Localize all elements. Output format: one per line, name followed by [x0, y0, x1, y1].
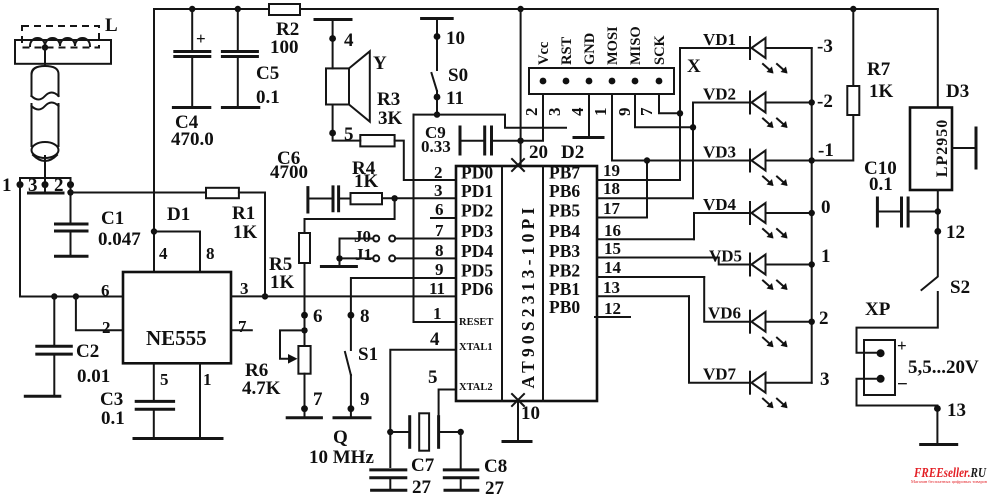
svg-text:3: 3	[820, 369, 830, 390]
svg-text:5: 5	[160, 370, 169, 389]
node 12	[934, 228, 941, 235]
svg-text:Магазин бесплатных цифровых то: Магазин бесплатных цифровых товаров	[911, 479, 987, 484]
svg-text:-2: -2	[817, 91, 833, 112]
svg-text:VD1: VD1	[703, 30, 736, 49]
ground C4	[173, 106, 209, 109]
wire VD7 feeder	[689, 296, 750, 382]
wire link to NE555 pin 2	[76, 297, 123, 331]
svg-text:S2: S2	[950, 277, 970, 298]
svg-text:11: 11	[429, 279, 445, 298]
svg-text:PD6: PD6	[461, 279, 493, 299]
capacitor C1	[56, 224, 88, 231]
node terminal2-R1 wire	[67, 189, 73, 195]
node S0-RST junction	[434, 111, 440, 117]
svg-text:Vcc: Vcc	[536, 41, 552, 65]
wire VD5 feeder	[719, 258, 750, 265]
svg-text:16: 16	[604, 221, 621, 240]
svg-text:NE555: NE555	[146, 326, 207, 350]
wire R4 node down to R5	[305, 198, 395, 233]
svg-text:10: 10	[521, 403, 540, 424]
svg-text:0.33: 0.33	[421, 137, 451, 156]
svg-text:PD5: PD5	[461, 261, 493, 281]
svg-text:S1: S1	[358, 344, 378, 365]
svg-text:−: −	[897, 374, 908, 395]
svg-text:J0: J0	[354, 227, 371, 246]
node 5	[329, 130, 336, 137]
node pin6-pin2 link	[73, 293, 79, 299]
capacitor C4	[191, 9, 193, 50]
wire speaker bottom	[333, 105, 361, 141]
LED VD5	[709, 247, 812, 291]
inductor L former box	[15, 40, 111, 64]
svg-text:5: 5	[344, 124, 354, 145]
wire NE555 pin 7 stub	[231, 329, 252, 331]
svg-text:1: 1	[433, 304, 442, 323]
wire PB1 pin 13	[597, 295, 689, 297]
resistor R2	[269, 4, 300, 15]
resistor R5	[299, 233, 310, 263]
pin 20 mark	[512, 159, 524, 171]
ground header	[574, 136, 603, 139]
LED VD7	[703, 365, 812, 409]
svg-text:VD6: VD6	[708, 304, 741, 323]
wire MISO to VD2 net	[635, 94, 693, 127]
node terminal 1	[17, 181, 24, 188]
svg-text:D2: D2	[561, 142, 584, 163]
capacitor C2	[53, 297, 55, 346]
wire terminal 2 to R1	[71, 192, 207, 194]
wire S2 to XP plus	[857, 292, 938, 353]
svg-text:4.7K: 4.7K	[242, 378, 281, 399]
svg-text:XP: XP	[865, 299, 891, 320]
svg-text:C7: C7	[411, 455, 435, 476]
svg-text:3: 3	[434, 181, 443, 200]
ground S1	[334, 416, 370, 419]
svg-text:4: 4	[159, 244, 168, 263]
svg-text:SCK: SCK	[652, 34, 668, 65]
capacitor C5	[237, 9, 239, 50]
svg-text:0: 0	[821, 197, 831, 218]
node 6	[301, 312, 308, 319]
svg-text:1K: 1K	[354, 171, 379, 192]
wire MCU pin 20 Vcc	[520, 9, 522, 166]
svg-text:4700: 4700	[270, 162, 308, 183]
node SCK-VD1	[677, 110, 683, 116]
terminal bar node 10	[422, 17, 453, 20]
capacitor C3	[136, 401, 173, 409]
svg-text:R1: R1	[232, 203, 255, 224]
terminal bar node 4	[315, 18, 351, 21]
wire R6 bottom	[304, 374, 306, 417]
svg-text:1K: 1K	[869, 81, 894, 102]
wire VD1 feeder	[680, 48, 750, 180]
ground pin 10	[503, 440, 531, 443]
wire S0 top	[436, 20, 438, 70]
svg-text:0.01: 0.01	[77, 366, 110, 387]
resistor R7	[852, 9, 854, 86]
svg-text:R3: R3	[377, 89, 400, 110]
wire VD3 feeder	[646, 161, 648, 218]
svg-text:10 MHz: 10 MHz	[309, 447, 374, 468]
svg-text:9: 9	[360, 389, 370, 410]
svg-text:3: 3	[240, 279, 249, 298]
svg-text:J1: J1	[355, 245, 372, 264]
ground C2	[25, 395, 60, 398]
svg-text:R7: R7	[867, 59, 891, 80]
ground C5	[222, 106, 258, 109]
node 13	[934, 405, 941, 412]
node crystal left	[387, 429, 393, 435]
svg-text:3K: 3K	[378, 108, 403, 129]
svg-text:L: L	[105, 15, 118, 36]
node J1 common	[336, 255, 342, 261]
svg-text:D1: D1	[167, 204, 190, 225]
svg-text:3: 3	[545, 108, 564, 117]
wire PB5 pin 17	[597, 217, 647, 219]
svg-text:1: 1	[591, 108, 610, 117]
ground C1	[56, 255, 88, 258]
inductor L dashed shield box	[22, 26, 99, 48]
svg-text:C8: C8	[484, 456, 507, 477]
speaker Y	[326, 68, 349, 104]
wire reset net to RESET pin	[414, 115, 457, 322]
pin 10 mark	[512, 394, 524, 406]
wire XTAL1	[390, 350, 456, 467]
svg-text:5: 5	[428, 367, 438, 388]
capacitor C8	[460, 432, 462, 469]
ground jumpers	[321, 265, 356, 268]
svg-text:9: 9	[615, 108, 634, 117]
node R6 wiper tie	[301, 327, 307, 333]
wire Vcc header pin to Vcc	[521, 94, 543, 141]
svg-text:LP2950: LP2950	[934, 119, 951, 177]
node rail-C4	[189, 6, 195, 12]
LED VD1	[703, 30, 812, 74]
wire PB3 pin 15	[597, 257, 719, 259]
svg-text:12: 12	[604, 299, 621, 318]
wire PB6 pin 18	[597, 197, 693, 199]
ground tab D3	[952, 147, 976, 149]
svg-text:0.047: 0.047	[98, 229, 141, 250]
svg-text:AT90S2313-10PI: AT90S2313-10PI	[518, 204, 538, 389]
svg-text:19: 19	[603, 161, 620, 180]
svg-text:PB1: PB1	[549, 279, 580, 299]
node R4-R5	[391, 195, 397, 201]
svg-text:PD2: PD2	[461, 201, 493, 221]
svg-text:RESET: RESET	[459, 317, 493, 328]
svg-text:PD4: PD4	[461, 241, 493, 261]
wire terminal bracket	[20, 178, 71, 185]
wire GND header	[588, 94, 590, 136]
wire PB4 pin 16	[597, 238, 694, 240]
wire coil tap down	[44, 48, 46, 67]
wire LED common rail	[811, 48, 813, 383]
svg-text:18: 18	[603, 179, 620, 198]
ground C8	[445, 489, 478, 492]
svg-text:VD5: VD5	[709, 247, 742, 266]
svg-text:VD7: VD7	[703, 365, 737, 384]
svg-text:15: 15	[604, 239, 621, 258]
svg-text:+: +	[897, 336, 907, 355]
svg-text:1K: 1K	[233, 222, 258, 243]
svg-text:-3: -3	[817, 36, 833, 57]
wire SCK to VD1 net	[659, 94, 680, 113]
wire XTAL2	[439, 390, 456, 421]
svg-text:13: 13	[947, 400, 966, 421]
resistor R4	[351, 193, 383, 204]
node pin6-C2	[51, 293, 57, 299]
wire R6 wiper loop	[280, 330, 305, 358]
svg-text:+: +	[196, 29, 206, 48]
ground battery	[921, 443, 957, 446]
wire terminal 1 to NE555 pin 6	[20, 185, 123, 297]
ground R6	[287, 416, 321, 419]
svg-text:20: 20	[529, 142, 548, 163]
svg-text:2: 2	[434, 163, 443, 182]
ground C3 / pin5	[134, 437, 178, 440]
svg-text:13: 13	[603, 278, 620, 297]
LED VD4	[703, 195, 812, 239]
wire VD3 row	[612, 160, 750, 162]
svg-text:14: 14	[604, 258, 622, 277]
svg-text:1: 1	[2, 175, 12, 196]
wire cable centre conductor	[44, 156, 46, 185]
wire PB2 pin 14	[597, 276, 704, 278]
wire MCU pin 10 ground	[517, 401, 519, 440]
svg-text:Y: Y	[373, 53, 387, 74]
svg-text:8: 8	[435, 241, 444, 260]
svg-text:6: 6	[101, 281, 110, 300]
node 8	[348, 312, 355, 319]
svg-text:C5: C5	[256, 63, 279, 84]
wire XP minus to node 13	[857, 379, 938, 443]
wire R5 to R6	[304, 263, 306, 346]
svg-text:10: 10	[446, 28, 465, 49]
svg-text:C3: C3	[100, 389, 123, 410]
wire Vcc drop to NE555 pins 4,8	[153, 9, 155, 272]
wire S1 bottom	[350, 375, 352, 417]
node Vcc-C9	[517, 138, 523, 144]
node rail VD2	[809, 99, 815, 105]
node rail VD4	[809, 210, 815, 216]
svg-text:XTAL1: XTAL1	[459, 342, 493, 353]
node 7	[301, 405, 308, 412]
svg-text:100: 100	[270, 37, 299, 58]
wire NE555 pin 3 to PD6	[231, 295, 456, 297]
svg-text:0.1: 0.1	[101, 408, 125, 429]
wire terminal 2 down	[70, 185, 72, 223]
svg-text:MISO: MISO	[628, 26, 644, 65]
node rail-R7	[850, 6, 856, 12]
potentiometer R6 arrow	[288, 354, 298, 364]
svg-text:17: 17	[603, 199, 621, 218]
wire VD4 feeder	[694, 213, 750, 239]
wire NE555 pin 5	[153, 363, 155, 400]
wire R7 to rail	[812, 115, 854, 161]
inductor L winding	[30, 38, 90, 46]
svg-text:RST: RST	[559, 36, 575, 65]
node VD3 tap	[644, 157, 650, 163]
node rail VD5	[809, 261, 815, 267]
svg-text:VD2: VD2	[703, 85, 736, 104]
svg-text:C1: C1	[101, 208, 124, 229]
svg-text:8: 8	[360, 306, 370, 327]
svg-text:2: 2	[102, 318, 111, 337]
svg-text:X: X	[687, 56, 701, 77]
wire VD6 feeder	[704, 277, 750, 322]
node terminal 3	[42, 181, 49, 188]
svg-text:8: 8	[206, 244, 215, 263]
svg-text:PB4: PB4	[549, 221, 580, 241]
svg-text:PB5: PB5	[549, 201, 580, 221]
wire R4 to PD1	[382, 197, 456, 199]
svg-text:D3: D3	[946, 81, 969, 102]
wire R3 to PD0	[395, 141, 456, 180]
wire PB7 pin 19	[597, 179, 680, 181]
svg-text:PB3: PB3	[549, 241, 580, 261]
wire S1 to PD5	[351, 278, 456, 350]
node MISO-VD2	[690, 124, 696, 130]
switch S0	[432, 73, 438, 91]
svg-text:2: 2	[819, 308, 829, 329]
wire top supply rail left segment	[154, 8, 269, 10]
node rail-C5	[235, 6, 241, 12]
wire NE555 pin 1	[199, 363, 201, 437]
ground C7	[372, 489, 406, 492]
wire top supply rail right segment	[300, 8, 938, 10]
node terminal 2	[67, 181, 74, 188]
wire S0 bottom	[436, 91, 438, 115]
wire R1 to NE555 pin 3 net	[239, 193, 265, 297]
header pins	[540, 78, 547, 85]
wire reset net S0 to RST header	[414, 115, 567, 128]
wire PB0 stub	[595, 316, 630, 318]
node rail VD6	[809, 319, 815, 325]
svg-text:7: 7	[435, 221, 444, 240]
svg-text:7: 7	[313, 389, 323, 410]
svg-text:VD4: VD4	[703, 195, 737, 214]
svg-text:6: 6	[435, 200, 444, 219]
svg-text:PD0: PD0	[461, 163, 493, 183]
svg-text:PD3: PD3	[461, 221, 493, 241]
wire VD2 feeder	[693, 103, 750, 199]
node rail-Vcc-MCU	[517, 6, 523, 12]
svg-text:GND: GND	[582, 33, 598, 65]
svg-text:1K: 1K	[270, 272, 295, 293]
svg-text:MOSI: MOSI	[605, 26, 621, 65]
svg-text:27: 27	[485, 478, 505, 499]
svg-text:S0: S0	[448, 65, 468, 86]
node rail VD3	[809, 157, 815, 163]
svg-text:4: 4	[430, 329, 440, 350]
ground pin 1	[180, 437, 222, 440]
svg-text:7: 7	[637, 107, 656, 116]
cable shielded lead-in	[32, 66, 59, 96]
svg-text:1: 1	[203, 370, 212, 389]
wire PD2 stub	[431, 217, 456, 219]
svg-text:5,5...20V: 5,5...20V	[908, 357, 979, 378]
wire branch to NE555 pin 8	[154, 232, 200, 273]
svg-text:27: 27	[412, 477, 432, 498]
capacitor C7	[371, 470, 406, 478]
svg-text:C2: C2	[76, 341, 99, 362]
node 11	[434, 94, 441, 101]
node 9	[348, 405, 355, 412]
ground shield bar	[44, 185, 46, 192]
node 10	[434, 33, 441, 40]
wire D3 output	[937, 190, 939, 276]
svg-text:PB7: PB7	[549, 163, 580, 183]
node Vcc-pin4-8 split	[151, 228, 157, 234]
svg-text:11: 11	[446, 88, 464, 109]
svg-text:-1: -1	[818, 140, 834, 161]
node R1-pin3	[262, 293, 268, 299]
svg-text:12: 12	[946, 222, 965, 243]
switch S2	[922, 277, 938, 290]
switch S1	[345, 352, 351, 375]
resistor R3	[360, 135, 394, 146]
LED VD6	[708, 304, 812, 348]
svg-text:470.0: 470.0	[171, 129, 214, 150]
svg-text:1: 1	[821, 246, 831, 267]
node 4	[329, 35, 336, 42]
resistor R1	[206, 188, 239, 198]
svg-text:VD3: VD3	[703, 143, 736, 162]
svg-text:0.1: 0.1	[256, 87, 280, 108]
svg-text:4: 4	[568, 107, 587, 116]
svg-text:2: 2	[522, 108, 541, 117]
wire MOSI to VD3 net	[611, 94, 613, 161]
crystal Q1 10MHz	[390, 431, 409, 433]
svg-text:Q: Q	[333, 427, 348, 448]
LED VD3	[703, 143, 812, 187]
node coil tap	[42, 44, 48, 50]
svg-text:XTAL2: XTAL2	[459, 382, 493, 393]
wire speaker top	[332, 21, 334, 68]
LED VD2	[703, 85, 812, 129]
svg-text:PB2: PB2	[549, 261, 580, 281]
svg-text:6: 6	[313, 306, 323, 327]
wire jumper common	[339, 239, 341, 266]
svg-text:4: 4	[344, 30, 354, 51]
svg-text:PD1: PD1	[461, 181, 493, 201]
svg-text:9: 9	[435, 260, 444, 279]
svg-text:0.1: 0.1	[869, 174, 893, 195]
svg-text:PB0: PB0	[549, 297, 580, 317]
node C10 tap	[935, 208, 941, 214]
svg-text:PB6: PB6	[549, 181, 580, 201]
svg-text:7: 7	[238, 317, 247, 336]
node crystal right	[458, 429, 464, 435]
